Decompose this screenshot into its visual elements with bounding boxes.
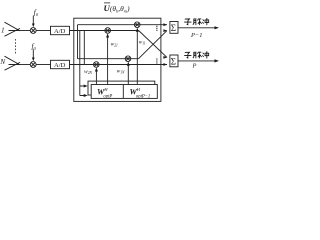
data input arrow to weight box lower bbox=[84, 94, 88, 97]
dots top summer inputs bbox=[156, 26, 157, 31]
svg-text:w11: w11 bbox=[139, 40, 146, 46]
vertical bus wire to weight boxes bbox=[79, 31, 81, 96]
antenna N bbox=[5, 56, 21, 70]
weight arrow w21 bbox=[106, 33, 109, 84]
dots bottom summer inputs bbox=[156, 58, 157, 63]
label subpulse P-1 bbox=[185, 18, 209, 25]
vertical tap wire channel 1 data bbox=[83, 31, 85, 65]
label subpulse P bbox=[185, 52, 209, 59]
wire A/D N output (channel N lower wire) bbox=[70, 64, 168, 66]
weight vector box front card bbox=[91, 85, 157, 99]
wire antenna1 to mixer1 bbox=[19, 30, 30, 32]
wire A/D 1 output (channel 1 lower wire) bbox=[70, 30, 139, 32]
weight box divider bbox=[122, 85, 124, 99]
svg-text:P: P bbox=[192, 63, 197, 70]
crossover diagonal channel1 lower to bottom summer bbox=[139, 31, 167, 58]
overbar of U in title bbox=[104, 2, 110, 4]
transform box U bbox=[74, 18, 161, 101]
svg-text:Σ: Σ bbox=[171, 57, 176, 67]
svg-text:Σ: Σ bbox=[171, 23, 176, 33]
svg-text:1: 1 bbox=[1, 25, 5, 34]
data arrow stems bbox=[80, 86, 85, 96]
svg-text:A/D: A/D bbox=[54, 62, 66, 69]
output wire subpulse P-1 bbox=[178, 26, 219, 29]
vertical split wire channel 1 to upper tap bbox=[77, 25, 79, 59]
svg-text:N: N bbox=[0, 57, 6, 66]
weight arrow w11 bbox=[136, 28, 139, 85]
weight vector box back card bbox=[88, 81, 155, 95]
multiplier W11 (circle-cross) bbox=[134, 22, 140, 28]
svg-text:w21: w21 bbox=[111, 42, 119, 48]
multiplier W2N (circle-cross) bbox=[94, 62, 100, 68]
mixer M1 (circle-cross) bbox=[30, 28, 36, 34]
arrow into top summer input 2 bbox=[163, 29, 167, 32]
svg-text:P−1: P−1 bbox=[190, 32, 202, 39]
dotted line between channels bbox=[14, 39, 17, 53]
summer box bottom bbox=[170, 55, 178, 67]
svg-text:U(θb,θm): U(θb,θm) bbox=[104, 3, 131, 13]
svg-text:A/D: A/D bbox=[54, 28, 66, 35]
LO arrow f0 into mixer M1 bbox=[32, 16, 35, 28]
A/D converter N box bbox=[51, 60, 70, 68]
data input arrow to weight box upper bbox=[84, 85, 88, 88]
wire mixerN to A/D N bbox=[36, 64, 50, 66]
antenna 1 bbox=[5, 22, 21, 36]
multiplier W1N (circle-cross) bbox=[125, 56, 131, 62]
wire mixer1 to A/D 1 bbox=[36, 30, 50, 32]
svg-text:f0: f0 bbox=[34, 8, 39, 18]
crossover diagonal channelN upper to top summer bbox=[139, 31, 168, 59]
multiplier W21 (circle-cross) bbox=[105, 28, 111, 34]
LO arrow f0 into mixer MN bbox=[32, 50, 35, 62]
summer box top bbox=[170, 22, 178, 34]
svg-text:optP−1: optP−1 bbox=[136, 94, 150, 99]
A/D converter 1 box bbox=[51, 26, 70, 34]
arrow into bottom summer input 2 bbox=[163, 63, 167, 66]
arrow into bottom summer input 1 bbox=[163, 56, 167, 59]
channel 1 upper wire bbox=[78, 24, 168, 26]
svg-text:optP: optP bbox=[103, 94, 112, 99]
mixer MN (circle-cross) bbox=[30, 62, 36, 68]
channel N upper wire bbox=[78, 58, 139, 60]
arrow into top summer input 1 bbox=[163, 23, 167, 26]
weight arrow w1N bbox=[127, 62, 130, 85]
wire antennaN to mixerN bbox=[19, 64, 30, 66]
svg-text:f0: f0 bbox=[32, 42, 37, 52]
svg-text:w2N: w2N bbox=[84, 69, 93, 75]
weight arrow w2N bbox=[95, 67, 98, 84]
output wire subpulse P bbox=[178, 59, 219, 62]
svg-text:w1N: w1N bbox=[117, 69, 126, 75]
